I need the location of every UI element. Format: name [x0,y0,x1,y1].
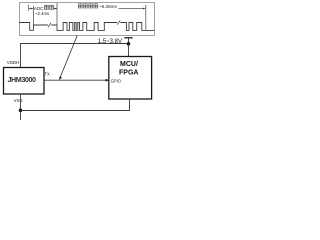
dimension arrow right (ADC span right) [54,8,57,10]
svg-text:TX: TX [45,72,51,77]
node tick t1 [32,6,34,25]
wire supply to MCU VDD [128,44,130,57]
chip JHM3000 [4,68,45,95]
junction dot supply [127,42,131,46]
CJK glyph blob 据 [83,4,87,8]
timing diagram box [20,3,155,36]
svg-text:VSS: VSS [14,98,23,103]
dimension arrow left (ADC span left) [29,5,34,11]
svg-text:~2.4ms: ~2.4ms [35,11,49,16]
callout diagonal from waveform to TX wire [59,35,77,80]
wire VSS down [20,94,22,120]
wire TX waveform [19,23,154,31]
wire TX to GPIO with arrow [44,79,109,82]
CJK glyph blob 数 [78,4,82,8]
junction dot ground [19,109,23,113]
svg-text:VDDH: VDDH [7,60,19,65]
chip MCU/FPGA [109,57,152,100]
svg-text:FPGA: FPGA [119,70,138,77]
svg-text:GPIO: GPIO [111,79,122,84]
svg-text:1.5~3.8V: 1.5~3.8V [98,39,122,45]
CJK glyph blob 换 [50,5,54,9]
svg-text:MCU/: MCU/ [120,61,138,68]
wire break mark 1 [48,23,51,27]
dimension arrow right (data span) [119,5,146,30]
power symbol supply rail terminal [124,38,132,44]
node tick t2 [56,3,58,30]
wire break mark 2 [117,20,120,24]
svg-text:~6.35ms: ~6.35ms [99,4,117,9]
CJK glyph blob 转 [44,5,48,9]
svg-text:JHM3000: JHM3000 [8,75,37,84]
wire ground rail [21,99,130,111]
CJK glyph blob 输 [89,4,93,8]
CJK glyph blob 出 [94,4,98,8]
wire VDDH to supply rail [21,44,129,68]
